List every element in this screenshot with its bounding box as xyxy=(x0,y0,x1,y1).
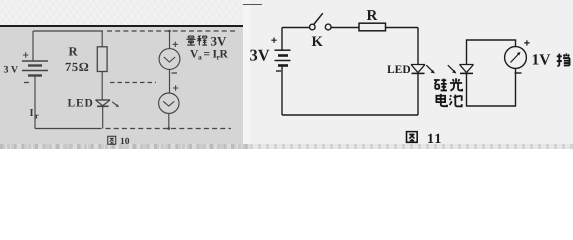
svg-text:a: a xyxy=(198,53,202,62)
svg-text:R: R xyxy=(220,49,229,61)
svg-text:1V: 1V xyxy=(532,52,552,69)
svg-text:=: = xyxy=(204,49,211,61)
svg-text:75Ω: 75Ω xyxy=(65,60,89,74)
svg-text:LED: LED xyxy=(387,64,411,76)
svg-text:10: 10 xyxy=(120,137,130,147)
svg-text:3V: 3V xyxy=(250,46,270,65)
svg-text:11: 11 xyxy=(427,132,443,147)
svg-text:r: r xyxy=(35,111,39,121)
svg-text:R: R xyxy=(367,8,378,24)
svg-text:3 V: 3 V xyxy=(4,65,19,76)
svg-text:LED: LED xyxy=(68,98,94,110)
svg-text:3V: 3V xyxy=(211,34,228,49)
svg-text:K: K xyxy=(312,34,324,50)
svg-text:R: R xyxy=(69,45,79,59)
svg-text:I: I xyxy=(30,108,34,119)
